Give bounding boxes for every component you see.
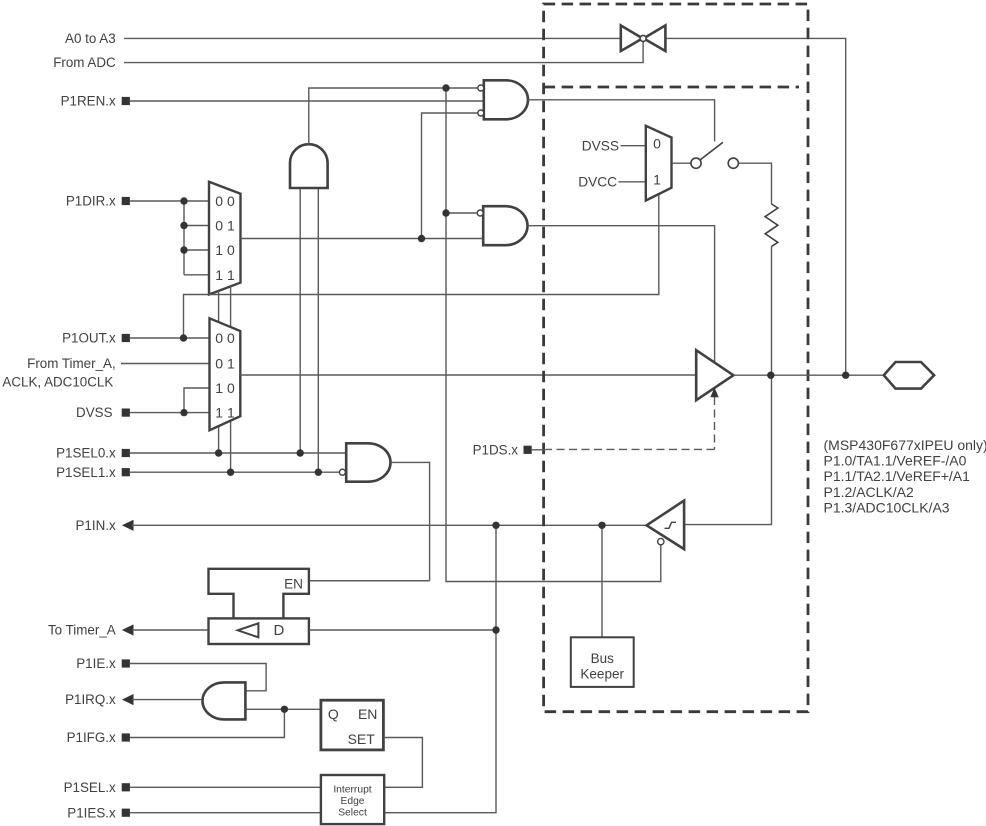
switch S1 contacts: [691, 142, 739, 168]
svg-text:0 0: 0 0: [215, 330, 235, 346]
latch D box: [209, 618, 309, 644]
wire mux1 select1 vertical: [230, 286, 232, 472]
svg-text:P1IE.x: P1IE.x: [76, 656, 116, 671]
wire P1DS stub: [532, 449, 546, 451]
wire FromADC: [124, 42, 643, 63]
dashed box outer: [544, 4, 808, 712]
mux U2 row labels: [215, 330, 235, 420]
mux U1 P1DIR (trapezoid): [209, 182, 241, 295]
svg-text:P1IRQ.x: P1IRQ.x: [65, 692, 116, 707]
wire mux1 select0 vertical: [218, 291, 220, 453]
svg-text:1 0: 1 0: [215, 380, 235, 396]
svg-text:1: 1: [653, 172, 661, 188]
svg-text:DVCC: DVCC: [578, 174, 617, 189]
wire DVSS jog to row10: [184, 388, 210, 413]
wire mux2 output to buffer: [240, 374, 696, 376]
wire P1IES to interrupt box: [130, 812, 321, 814]
svg-text:P1.2/ACLK/A2: P1.2/ACLK/A2: [824, 484, 914, 500]
wire AND3 output to EN latch: [309, 462, 430, 580]
buffer U10 output driver: [696, 350, 733, 400]
node A0 to A3 label: [65, 31, 116, 46]
mux U1 row labels: [215, 193, 235, 283]
svg-text:ACLK, ADC10CLK: ACLK, ADC10CLK: [2, 374, 113, 389]
svg-text:0 0: 0 0: [215, 193, 235, 209]
mux U2 P1OUT (trapezoid): [210, 318, 241, 430]
wire Timer to mux2 row01: [121, 363, 210, 365]
node P1OUT.x label: [62, 331, 130, 346]
wire P1IFG up to Q row: [130, 709, 285, 737]
wire EN enable line: [309, 580, 430, 582]
wire P1SEL1: [130, 471, 340, 473]
wire P1OUT up and right (pullup select): [184, 194, 659, 338]
svg-text:EN: EN: [358, 706, 377, 722]
wire P1IRQ from AND5: [132, 699, 203, 701]
node P1IES.x label: [67, 805, 130, 820]
box U8 Interrupt Edge Select: [321, 775, 384, 824]
wire A0toA3 left: [124, 37, 621, 39]
wire interrupt box to pin net: [384, 812, 496, 814]
wire AND1 output to switch: [528, 100, 715, 142]
wire A0toA3 right to pad column: [666, 38, 846, 371]
and-gate U3a AND1 (REN logic, bubbles on in1,in3): [478, 80, 528, 119]
svg-text:Bus: Bus: [591, 651, 615, 666]
node P1IFG.x label: [67, 730, 130, 745]
node P1IE.x label: [76, 656, 130, 671]
wire pad line to schmitt: [684, 375, 771, 524]
svg-text:P1IFG.x: P1IFG.x: [67, 730, 116, 745]
svg-text:Edge: Edge: [340, 796, 364, 807]
svg-text:A0 to A3: A0 to A3: [65, 31, 116, 46]
node P1SEL0.x label: [56, 446, 130, 461]
node P1DIR.x label: [66, 194, 130, 209]
wire AND2 output to buffer enable: [528, 226, 715, 363]
svg-text:0: 0: [653, 136, 661, 152]
svg-text:P1SEL1.x: P1SEL1.x: [56, 465, 116, 480]
flipflop text: [328, 706, 378, 747]
svg-text:1 1: 1 1: [215, 267, 235, 283]
node From Timer_A label: [2, 356, 115, 389]
wire P1IN line: [132, 524, 647, 526]
wire P1SEL0: [130, 452, 346, 454]
wire P1DIR to mux1 row00: [130, 200, 209, 202]
mux U9 pullup select (trapezoid): [646, 126, 672, 201]
svg-text:To Timer_A: To Timer_A: [48, 623, 116, 638]
latch D clock triangle: [238, 623, 259, 637]
wire switch to resistor: [738, 163, 771, 204]
wire mux1 output to AND2 input: [241, 238, 484, 240]
svg-text:P1DS.x: P1DS.x: [473, 442, 519, 457]
node P1REN.x label: [61, 94, 130, 109]
node From ADC label: [53, 55, 116, 70]
wire AND1 input3 from mux1 output: [422, 113, 478, 239]
latch EN text: [284, 576, 303, 591]
and-gate U5 AND3 (P1SEL logic, bubble on in2): [339, 443, 390, 481]
svg-text:Select: Select: [338, 807, 367, 818]
node DVSS label (pullup mux): [582, 138, 619, 153]
transmission gate (analog switch): [621, 25, 666, 51]
svg-text:P1.0/TA1.1/VeREF-/A0: P1.0/TA1.1/VeREF-/A0: [824, 453, 967, 469]
wire bus keeper connection: [601, 525, 603, 637]
svg-text:SET: SET: [348, 731, 376, 747]
wire DVSS to mux2 row11: [130, 412, 210, 414]
right text block: [824, 437, 986, 516]
node P1IN.x label: [76, 518, 134, 533]
and-gate U4 (vertical): [290, 144, 328, 188]
svg-text:P1DIR.x: P1DIR.x: [66, 194, 116, 209]
wire AND5 in2 to Q box: [245, 708, 321, 710]
wire AND4 input verticals: [300, 188, 318, 472]
svg-text:EN: EN: [284, 576, 303, 591]
latch EN box (staple): [209, 569, 309, 619]
svg-text:D: D: [274, 622, 285, 639]
wire P1IE to AND5: [130, 664, 266, 691]
svg-text:P1IES.x: P1IES.x: [67, 805, 116, 820]
node P1SEL1.x label: [56, 465, 130, 480]
wire P1REN to AND1: [130, 100, 484, 102]
svg-text:Q: Q: [328, 706, 339, 722]
svg-text:P1SEL.x: P1SEL.x: [64, 780, 116, 795]
svg-text:Interrupt: Interrupt: [333, 784, 371, 795]
wire DVCC to mux3: [619, 181, 646, 183]
svg-text:P1SEL0.x: P1SEL0.x: [56, 446, 116, 461]
svg-text:0 1: 0 1: [215, 218, 235, 234]
latch D text: [274, 622, 285, 639]
flipflop U7 Q/EN/SET box: [321, 700, 384, 750]
wire AND2 input1 stub: [446, 212, 477, 214]
svg-text:From ADC: From ADC: [53, 55, 116, 70]
schmitt enable bubble: [658, 538, 664, 544]
wire P1OUT to mux2 row00: [130, 337, 210, 339]
wire P1SEL to interrupt box: [130, 786, 321, 788]
wire mux3 output to switch: [672, 162, 692, 164]
node DVSS label left: [76, 405, 130, 420]
node P1IRQ.x label: [65, 692, 133, 707]
svg-text:P1REN.x: P1REN.x: [61, 94, 116, 109]
and-gate U6 AND5 (left facing, IRQ): [203, 682, 246, 719]
node P1DS.x label: [473, 442, 532, 457]
svg-text:0 1: 0 1: [215, 356, 235, 372]
svg-text:P1.1/TA2.1/VeREF+/A1: P1.1/TA2.1/VeREF+/A1: [824, 468, 971, 484]
and-gate U3b AND2 (bubble on in1): [477, 206, 527, 245]
pad hexagon: [884, 362, 934, 389]
box U12 Bus Keeper: [571, 637, 634, 687]
wire P1DIR chain vertical: [184, 201, 209, 275]
svg-text:Keeper: Keeper: [580, 667, 624, 682]
wire SET loop to interrupt box: [383, 738, 422, 788]
svg-text:P1OUT.x: P1OUT.x: [62, 331, 116, 346]
schmitt hysteresis symbol: [665, 522, 677, 528]
node P1SEL.x label: [64, 780, 130, 795]
svg-text:(MSP430F677xIPEU only): (MSP430F677xIPEU only): [824, 437, 986, 453]
wire buffer output to pad: [733, 374, 883, 376]
dashed line inner top: [544, 86, 799, 89]
svg-text:From Timer_A,: From Timer_A,: [27, 356, 116, 371]
wire To Timer_A: [132, 629, 209, 631]
P1DS enable arrow: [710, 388, 718, 398]
wire D input from pin: [309, 629, 496, 631]
wire P1DS dashed: [546, 397, 715, 449]
node To Timer_A label: [48, 623, 134, 638]
wire AND4 output up and right: [309, 88, 480, 144]
resistor R1: [765, 204, 778, 246]
schmitt trigger U11: [647, 501, 685, 549]
wire pin net vertical to interrupt: [495, 525, 497, 812]
svg-text:1 0: 1 0: [215, 242, 235, 258]
svg-text:DVSS: DVSS: [76, 405, 113, 420]
svg-text:1 1: 1 1: [215, 404, 235, 420]
node DVCC label: [578, 174, 617, 189]
wire resistor to pad line: [771, 246, 773, 375]
svg-text:DVSS: DVSS: [582, 138, 619, 153]
svg-text:P1IN.x: P1IN.x: [76, 518, 116, 533]
wire DVSS to mux3: [621, 145, 646, 147]
wire SEL net vertical down: [446, 88, 661, 582]
svg-text:P1.3/ADC10CLK/A3: P1.3/ADC10CLK/A3: [824, 500, 950, 516]
